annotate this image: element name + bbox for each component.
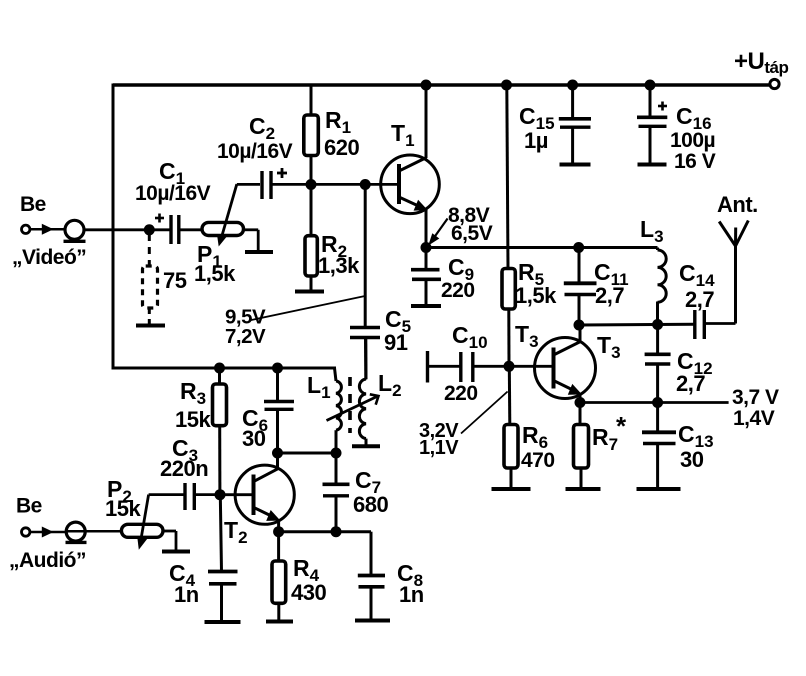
label R4 value: [291, 580, 326, 605]
label C13: [678, 421, 714, 451]
wire C6 top: [276, 368, 279, 401]
label C9: [448, 254, 474, 284]
capacitor C11: [564, 283, 597, 294]
video connector symbol: [64, 220, 86, 241]
wire C11 bottom: [578, 295, 581, 326]
wire C5 to L2: [364, 338, 367, 380]
label P1 value: [194, 261, 236, 286]
svg-text:16 V: 16 V: [674, 150, 716, 173]
svg-text:220: 220: [441, 279, 475, 302]
wire base node to T3: [509, 365, 554, 368]
label +Utap: [734, 48, 788, 77]
wire C6 bottom: [276, 409, 279, 453]
wire R4 top: [277, 532, 280, 562]
wire R7 bottom: [580, 468, 583, 488]
wire C13 bottom: [656, 444, 659, 488]
svg-text:2,7: 2,7: [595, 283, 624, 308]
svg-text:„Videó”: „Videó”: [12, 246, 86, 269]
label C16 value: [670, 129, 715, 152]
svg-text:1,5k: 1,5k: [515, 283, 557, 308]
svg-text:470: 470: [521, 449, 555, 472]
capacitor C8: [358, 576, 385, 587]
node T2 base junction: [215, 489, 226, 500]
wire T3 emitter bus: [580, 401, 729, 404]
label R4: [293, 555, 320, 585]
wire P2 wiper to C3: [149, 493, 185, 496]
wire left feedback vertical: [112, 84, 115, 370]
wire C16 bottom: [649, 126, 652, 163]
svg-text:1,1V: 1,1V: [419, 437, 459, 459]
wire 75ohm dashed stem top: [148, 234, 151, 266]
wire C12: [656, 325, 659, 403]
inductor L2: [359, 338, 366, 446]
ground under R7: [566, 487, 601, 491]
transistor T1 body: [381, 155, 440, 214]
label R3: [180, 378, 206, 408]
node C15 rail junction: [567, 80, 578, 91]
label L2: [378, 370, 402, 400]
label 6,5V: [451, 222, 493, 245]
wire C4 bottom: [220, 584, 223, 621]
C10 input terminal bar: [426, 351, 429, 383]
capacitor C5: [350, 328, 380, 338]
node L3 bottom junction: [652, 319, 663, 330]
video input arrow: [42, 224, 54, 235]
capacitor C10: [461, 352, 473, 382]
label C5 value: [384, 330, 408, 355]
svg-text:91: 91: [384, 330, 408, 355]
svg-text:1µ: 1µ: [524, 128, 548, 153]
capacitor C13: [642, 432, 676, 443]
wire C15 top: [571, 85, 574, 118]
label 7,2V: [225, 325, 266, 348]
label R5 value: [515, 283, 557, 308]
node C11 top junction: [573, 242, 584, 253]
label C7 value: [353, 492, 388, 517]
ground under R4: [266, 620, 293, 624]
wire R2 bottom: [310, 276, 313, 291]
T1 collector: [400, 85, 427, 171]
wire R2 top: [310, 185, 313, 237]
svg-text:1,3k: 1,3k: [318, 253, 360, 278]
label C3 value: [160, 456, 208, 481]
wire C10 to base node: [473, 365, 509, 368]
svg-text:7,2V: 7,2V: [225, 325, 266, 348]
capacitor C16: [637, 117, 667, 126]
label 3,7V: [732, 386, 779, 409]
resistor R5: [502, 269, 515, 310]
svg-text:Be: Be: [16, 495, 42, 518]
wire C8 bottom: [370, 587, 373, 619]
label R6: [522, 422, 548, 452]
svg-text:10µ/16V: 10µ/16V: [135, 182, 211, 205]
label T3 left: [515, 321, 539, 351]
ground under R2: [295, 290, 324, 294]
label P2 value: [105, 496, 141, 521]
svg-text:620: 620: [324, 135, 359, 160]
ground under 75: [136, 324, 165, 328]
label R6 value: [521, 449, 555, 472]
wire P1 right: [244, 230, 259, 251]
label R7 star: [616, 411, 627, 441]
capacitor C14: [695, 310, 705, 339]
svg-text:Ant.: Ant.: [717, 192, 758, 217]
wire C3 right: [194, 493, 220, 496]
label C4 value: [174, 582, 199, 607]
capacitor C15: [559, 119, 591, 127]
node C6 bottom junction: [272, 448, 283, 459]
svg-text:100µ: 100µ: [670, 129, 715, 152]
svg-text:430: 430: [291, 580, 326, 605]
svg-text:2,7: 2,7: [685, 287, 714, 312]
pointer 8,8V arrow: [428, 219, 447, 246]
label C11: [594, 259, 629, 289]
resistor R1: [304, 115, 319, 156]
svg-text:10µ/16V: 10µ/16V: [217, 140, 293, 163]
node audio input terminal: [22, 528, 30, 536]
wire C9 bottom: [425, 279, 428, 304]
transistor T2 body: [235, 465, 294, 524]
inductor L1: [336, 381, 341, 430]
label C1 value: [135, 182, 211, 205]
wire C9 top: [425, 248, 428, 269]
label C11 value: [595, 283, 624, 308]
label C1: [159, 158, 185, 188]
node base wire junction: [360, 179, 371, 190]
T2 base bar: [252, 475, 256, 516]
T1 emitter: [400, 198, 428, 248]
T2 emitter: [255, 508, 281, 532]
svg-text:1,5k: 1,5k: [194, 261, 236, 286]
label C10: [452, 322, 488, 352]
node T3 base junction: [504, 361, 515, 372]
svg-text:„Audió”: „Audió”: [9, 549, 86, 572]
wire +Utap supply rail: [113, 83, 769, 87]
label R3 value: [175, 407, 211, 432]
label Video: [12, 246, 86, 269]
wire R1 bottom: [310, 156, 313, 185]
label C2: [249, 113, 275, 143]
capacitor C3: [185, 483, 194, 510]
label L1: [307, 372, 331, 402]
T3 emitter: [555, 381, 583, 403]
wire P2 right: [163, 531, 176, 550]
label C16 voltage: [674, 150, 716, 173]
label C15 value: [524, 128, 548, 153]
label 3,2V: [419, 420, 459, 442]
wire audio input lead: [30, 531, 66, 534]
T3 base bar: [552, 348, 556, 389]
label C3: [172, 435, 198, 465]
ground under C9: [411, 304, 441, 308]
wire R3 top: [218, 368, 221, 385]
wire C7 bottom: [335, 496, 338, 532]
svg-text:6,5V: 6,5V: [451, 222, 493, 245]
wire T2 emitter bus: [279, 530, 371, 533]
node L1/C7 junction: [331, 448, 342, 459]
capacitor C9: [411, 270, 441, 280]
label P2: [107, 476, 132, 506]
wire C2 to T1 base: [271, 183, 399, 186]
pointer 3,2V: [461, 392, 508, 434]
label C9 value: [441, 279, 475, 302]
svg-text:30: 30: [242, 426, 266, 451]
node R1/C2/base junction: [306, 179, 317, 190]
wire C15 bottom: [571, 127, 574, 163]
T3 collector: [555, 325, 581, 355]
svg-text:1n: 1n: [174, 582, 199, 607]
C2 plus mark: [277, 168, 287, 178]
svg-text:1,4V: 1,4V: [733, 407, 775, 430]
node C13 junction: [652, 397, 663, 408]
svg-text:75: 75: [163, 268, 187, 293]
wire C10 left: [428, 365, 461, 368]
label R2 value: [318, 253, 360, 278]
capacitor C2: [262, 171, 271, 199]
label 8,8V: [448, 204, 490, 227]
wire P1 wiper to C2: [237, 183, 260, 186]
audio connector symbol: [66, 522, 87, 542]
audio input arrow: [42, 527, 54, 538]
ground under C8: [355, 619, 390, 623]
svg-text:15k: 15k: [175, 407, 211, 432]
P2 wiper arrow: [137, 495, 148, 550]
label C6: [242, 405, 268, 435]
label C13 value: [680, 447, 704, 472]
svg-text:15k: 15k: [105, 496, 141, 521]
wire R5 from rail: [507, 85, 508, 269]
wire L3 top: [579, 248, 658, 251]
resistor R3: [213, 384, 227, 426]
ground under C15: [560, 163, 591, 167]
ground under C16: [638, 163, 667, 167]
label R7: [592, 424, 618, 454]
T2 collector: [255, 453, 279, 481]
label 1,4V: [733, 407, 775, 430]
label T3 right: [597, 332, 621, 362]
P1 wiper arrow: [217, 184, 237, 246]
ground under L2: [352, 444, 380, 448]
wire 75ohm dashed stem bottom: [148, 308, 151, 324]
wire R3 bottom: [218, 426, 221, 495]
label R5: [518, 259, 544, 289]
svg-text:Be: Be: [20, 193, 46, 216]
capacitor C6: [264, 402, 294, 410]
node C6 frame junction: [272, 363, 283, 374]
label R1: [325, 107, 351, 137]
ground under R6: [492, 487, 531, 491]
node T1 emitter junction: [421, 242, 432, 253]
label C10 value: [444, 382, 478, 405]
pointer 9,5V: [249, 296, 365, 321]
label C12 value: [676, 371, 705, 396]
resistor 75 (dashed): [143, 266, 158, 308]
label P1: [197, 241, 222, 271]
node T2 emitter junction: [273, 526, 284, 537]
label C15: [519, 103, 555, 133]
svg-text:30: 30: [680, 447, 704, 472]
svg-text:220n: 220n: [160, 456, 208, 481]
L1/L2 tuning arrow: [327, 394, 379, 420]
svg-text:220: 220: [444, 382, 478, 405]
wire C8 top: [370, 532, 373, 575]
ground under C4: [205, 620, 241, 624]
wire R6 top: [508, 366, 512, 425]
label Ant.: [717, 192, 758, 217]
label Audio: [9, 549, 86, 572]
wire L1 top: [335, 368, 337, 381]
wire emitter bus: [426, 246, 658, 249]
svg-text:1n: 1n: [399, 582, 424, 607]
node T1 collector rail junction: [421, 80, 432, 91]
ground under P1: [245, 250, 273, 254]
node T3 emitter junction: [575, 397, 586, 408]
label Be (audio): [16, 495, 42, 518]
node R3 frame junction: [214, 363, 225, 374]
wire base to C5: [364, 185, 367, 328]
label C14: [679, 260, 715, 290]
ground under P2: [162, 550, 190, 554]
wire R6 bottom: [510, 468, 513, 488]
C16 plus mark: [658, 102, 667, 111]
capacitor C7: [323, 484, 350, 496]
label C2 value: [217, 140, 293, 163]
label T1: [391, 120, 415, 150]
antenna: [719, 221, 748, 324]
svg-text:2,7: 2,7: [676, 371, 705, 396]
label C4: [169, 560, 196, 590]
node C11 bottom junction: [574, 320, 585, 331]
potentiometer P2: [121, 524, 163, 537]
wire C7 top: [335, 453, 338, 483]
resistor R4: [272, 561, 286, 603]
wire T2 base: [220, 493, 254, 496]
transformer core: [348, 377, 352, 433]
wire audio to P2: [66, 530, 122, 533]
wire video input lead: [30, 228, 66, 231]
wire R7 top: [579, 403, 582, 426]
node R5 rail junction: [501, 80, 512, 91]
label C6 value: [242, 426, 266, 451]
wire R4 bottom: [277, 603, 280, 620]
capacitor C4: [208, 572, 238, 584]
wire R5 bottom: [507, 309, 510, 366]
capacitor C12: [645, 354, 671, 364]
wire R1 top: [310, 85, 313, 116]
label 1,1V: [419, 437, 459, 459]
wire collector bus T2: [278, 452, 337, 455]
wire L1 bottom: [335, 430, 338, 453]
inductor L3: [658, 250, 667, 302]
node C7/C8 junction: [331, 526, 342, 537]
wire frame bottom horizontal: [112, 367, 337, 370]
label T2: [224, 517, 248, 547]
node supply terminal +Utap: [770, 79, 779, 88]
resistor R7: [574, 425, 589, 469]
wire collector bus: [579, 323, 695, 327]
label L3: [640, 216, 664, 246]
label R1 value: [324, 135, 359, 160]
potentiometer P1: [202, 222, 244, 235]
label R2: [321, 231, 347, 261]
label C5: [385, 306, 411, 336]
T1 base bar: [397, 164, 401, 204]
label C14 value: [685, 287, 714, 312]
label 75: [163, 268, 187, 293]
transistor T3 body: [535, 338, 596, 399]
wire C1 to P1: [179, 228, 203, 231]
wire C14 right: [704, 322, 735, 325]
svg-text:680: 680: [353, 492, 388, 517]
label C12: [677, 348, 713, 378]
wire C13 top: [656, 403, 659, 432]
label C8: [397, 560, 423, 590]
label C8 value: [399, 582, 424, 607]
node video junction: [144, 224, 155, 235]
svg-text:3,7 V: 3,7 V: [732, 386, 779, 409]
wire C11 top: [578, 248, 581, 283]
node C16 rail junction: [645, 80, 656, 91]
ground under C13: [637, 487, 681, 491]
label C7: [355, 467, 381, 497]
label 9,5V: [225, 306, 266, 329]
label Be (video): [20, 193, 46, 216]
node video input terminal: [22, 225, 30, 233]
wire video to C1: [84, 228, 170, 231]
capacitor C1: [171, 215, 179, 244]
wire C4 top: [220, 495, 221, 572]
svg-text:*: *: [616, 411, 627, 441]
label C16: [676, 103, 712, 133]
C1 plus mark: [155, 214, 164, 223]
wire L3 bottom: [656, 302, 659, 326]
resistor R2: [305, 236, 317, 276]
resistor R6: [504, 425, 518, 469]
wire C16 top: [649, 85, 652, 116]
